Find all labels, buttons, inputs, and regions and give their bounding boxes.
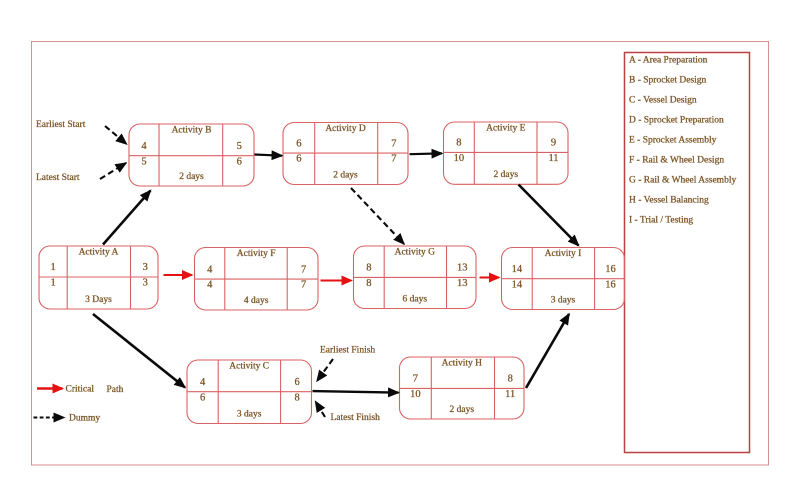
svg-text:1: 1 (50, 278, 55, 289)
svg-text:11: 11 (548, 153, 558, 164)
svg-text:7: 7 (413, 374, 418, 385)
wire A to B (103, 191, 151, 245)
wire D to E (410, 152, 443, 155)
svg-text:Activity I: Activity I (545, 249, 582, 259)
svg-text:2 days: 2 days (179, 172, 204, 182)
svg-text:14: 14 (512, 279, 523, 290)
svg-text:2 days: 2 days (450, 405, 475, 415)
svg-text:6: 6 (296, 138, 301, 149)
svg-text:7: 7 (301, 264, 306, 275)
svg-text:Activity C: Activity C (229, 362, 269, 372)
svg-text:13: 13 (457, 263, 468, 274)
svg-text:Latest Start: Latest Start (36, 173, 80, 183)
svg-text:4 days: 4 days (244, 296, 269, 306)
pointer Earliest Start to B (105, 126, 127, 144)
wire B to D (255, 155, 283, 156)
svg-text:B - Sprocket Design: B - Sprocket Design (629, 76, 707, 86)
svg-text:8: 8 (508, 374, 513, 385)
svg-text:4: 4 (141, 141, 147, 152)
svg-text:6 days: 6 days (403, 294, 428, 304)
activity node F (195, 248, 319, 311)
key critical path red arrow (37, 387, 63, 390)
svg-text:3: 3 (143, 262, 148, 273)
svg-text:4: 4 (207, 280, 213, 291)
svg-text:8: 8 (366, 263, 371, 274)
svg-text:Activity B: Activity B (172, 126, 212, 136)
svg-text:10: 10 (410, 389, 421, 400)
svg-text:5: 5 (237, 141, 242, 152)
pointer Latest Finish to C (316, 402, 326, 418)
svg-text:1: 1 (50, 262, 55, 273)
svg-text:6: 6 (296, 154, 301, 165)
legend box (625, 53, 750, 453)
svg-text:Activity E: Activity E (486, 124, 526, 134)
svg-text:7: 7 (391, 154, 396, 165)
wire C to H (313, 391, 399, 393)
svg-text:G - Rail & Wheel Assembly: G - Rail & Wheel Assembly (629, 176, 736, 186)
wire H to I (526, 314, 569, 388)
svg-text:16: 16 (605, 279, 616, 290)
svg-text:5: 5 (141, 156, 146, 167)
svg-text:3: 3 (143, 278, 148, 289)
svg-text:8: 8 (456, 138, 461, 149)
activity node H (400, 357, 525, 419)
svg-text:Activity A: Activity A (79, 248, 119, 258)
svg-text:7: 7 (391, 138, 396, 149)
svg-text:Activity G: Activity G (395, 248, 436, 258)
wire E to I (519, 185, 579, 246)
svg-text:F - Rail & Wheel Design: F - Rail & Wheel Design (629, 156, 724, 166)
critical wire G to I (480, 277, 500, 279)
svg-text:E - Sprocket Assembly: E - Sprocket Assembly (629, 136, 717, 146)
svg-text:Activity D: Activity D (325, 124, 366, 134)
svg-text:13: 13 (457, 278, 468, 289)
activity node G (354, 246, 477, 309)
svg-text:Activity H: Activity H (442, 359, 483, 369)
svg-text:16: 16 (605, 264, 616, 275)
svg-text:11: 11 (505, 389, 515, 400)
svg-text:Latest Finish: Latest Finish (331, 413, 381, 423)
critical wire F to G (321, 280, 352, 282)
svg-text:4: 4 (207, 264, 213, 275)
svg-text:Earliest Start: Earliest Start (36, 120, 86, 130)
svg-text:6: 6 (294, 377, 299, 388)
svg-text:6: 6 (200, 392, 205, 403)
svg-text:Activity F: Activity F (237, 249, 276, 259)
activity node C (187, 360, 312, 424)
svg-text:8: 8 (294, 392, 299, 403)
svg-text:Earliest Finish: Earliest Finish (320, 346, 375, 356)
activity node D (283, 123, 408, 185)
svg-text:Dummy: Dummy (69, 414, 100, 424)
pointer Latest Start to B (100, 163, 126, 179)
svg-text:6: 6 (237, 156, 242, 167)
activity node B (129, 124, 254, 186)
svg-text:Critical: Critical (66, 385, 95, 395)
svg-text:3 days: 3 days (551, 295, 576, 305)
svg-text:D - Sprocket Preparation: D - Sprocket Preparation (629, 116, 724, 126)
svg-text:Path: Path (107, 385, 124, 395)
critical wire A to F (164, 274, 193, 276)
svg-text:C - Vessel Design: C - Vessel Design (629, 96, 697, 106)
svg-text:4: 4 (200, 377, 206, 388)
svg-text:3 days: 3 days (237, 409, 262, 419)
svg-text:A - Area Preparation: A - Area Preparation (629, 56, 708, 66)
activity node I (502, 248, 625, 310)
outer frame border (32, 42, 769, 466)
svg-text:7: 7 (301, 280, 306, 291)
svg-text:10: 10 (454, 153, 465, 164)
dashed dummy wire D to G (351, 188, 404, 244)
pointer Earliest Finish to C (317, 359, 333, 381)
svg-text:H - Vessel Balancing: H - Vessel Balancing (629, 196, 709, 206)
svg-text:2 days: 2 days (494, 170, 519, 180)
activity node A (39, 246, 158, 309)
wire A to C (93, 314, 185, 388)
svg-text:8: 8 (366, 278, 371, 289)
svg-text:9: 9 (551, 138, 556, 149)
svg-text:3 Days: 3 Days (85, 295, 112, 305)
svg-text:14: 14 (512, 264, 523, 275)
activity node E (444, 122, 569, 184)
key dummy dashed arrow (34, 417, 65, 419)
svg-text:I - Trial / Testing: I - Trial / Testing (629, 216, 693, 226)
svg-text:2 days: 2 days (333, 170, 358, 180)
